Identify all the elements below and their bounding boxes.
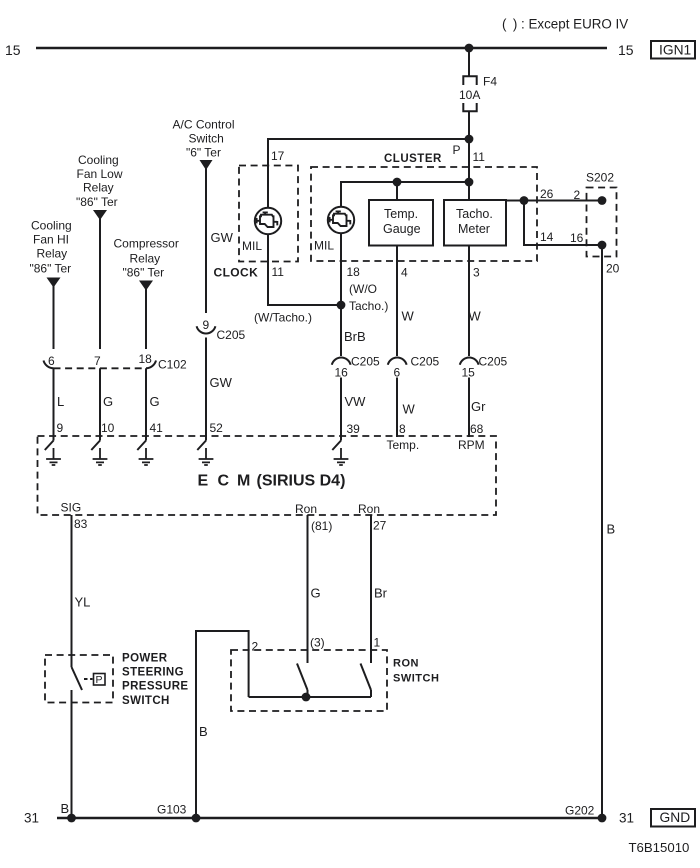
svg-text:"6" Ter: "6" Ter	[186, 146, 221, 160]
svg-text:B: B	[199, 724, 208, 739]
svg-text:G: G	[103, 394, 113, 409]
svg-text:Br: Br	[374, 586, 388, 601]
svg-text:Gr: Gr	[471, 399, 486, 414]
tacho meter	[444, 200, 506, 246]
wire: cluster MIL 18 down	[340, 233, 342, 356]
junction: main feed	[465, 178, 474, 187]
wire: branch 26 to 14	[524, 201, 602, 246]
svg-text:2: 2	[574, 188, 581, 202]
svg-text:GW: GW	[211, 230, 234, 245]
ECM ground pin 10	[91, 436, 107, 465]
junction: P/S switch ground	[67, 814, 76, 823]
connector C102	[44, 358, 188, 372]
junction: s202 pin 16	[598, 241, 607, 250]
svg-text:Cooling: Cooling	[78, 153, 119, 167]
MIL lamp (clock)	[242, 208, 281, 253]
svg-text:(3): (3)	[310, 636, 325, 650]
wire: C205 to ECM pin 52	[205, 338, 207, 441]
svg-text:C102: C102	[158, 358, 187, 372]
wire: Ron 81 to RON switch 3, label G	[307, 515, 309, 663]
wire: compressor to C102 pin 18	[145, 289, 147, 349]
svg-text:Tacho.): Tacho.)	[349, 299, 388, 313]
wire: to ECM 39, label VW	[340, 378, 342, 441]
junction: rail to fuse	[465, 44, 474, 53]
svg-text:S202: S202	[586, 171, 614, 185]
svg-text:52: 52	[210, 421, 224, 435]
svg-text:C205: C205	[411, 355, 440, 369]
svg-text:20: 20	[606, 262, 620, 276]
svg-text:B: B	[61, 801, 70, 816]
svg-text:MIL: MIL	[314, 239, 334, 253]
RON switch	[231, 650, 387, 711]
svg-text:G202: G202	[565, 804, 595, 818]
net: IGN1	[651, 41, 695, 59]
svg-text:VW: VW	[345, 394, 367, 409]
svg-text:Compressor: Compressor	[114, 237, 179, 251]
wire: ground bus to RON switch pin 2	[196, 631, 249, 818]
label: RON SWITCH	[393, 658, 439, 685]
svg-text:15: 15	[618, 42, 634, 58]
svg-text:GW: GW	[210, 375, 233, 390]
label: POWER STEERING PRESSURE SWITCH	[122, 653, 188, 708]
svg-text:Temp.: Temp.	[387, 438, 420, 452]
wire: pin18 to ECM pin 41, label G	[145, 368, 147, 440]
svg-text:16: 16	[570, 231, 584, 245]
svg-text:14: 14	[540, 230, 554, 244]
ECM ground pin 52	[197, 436, 213, 465]
svg-text:G: G	[150, 394, 160, 409]
wire: cluster internal feed	[341, 139, 469, 207]
svg-text:Relay: Relay	[37, 247, 68, 261]
svg-text:31: 31	[619, 811, 634, 826]
svg-text:26: 26	[540, 187, 554, 201]
svg-text:7: 7	[94, 354, 101, 368]
wire: temp gauge down, label W	[396, 246, 398, 357]
wire: SIG 83 to P/S switch, label YL	[71, 515, 73, 667]
wire: pin6 to ECM pin 9, label L	[53, 368, 55, 440]
svg-text:2: 2	[252, 640, 259, 654]
wire: B to G202	[601, 245, 603, 818]
ground G202	[565, 804, 606, 823]
junction: s202 branch	[520, 196, 529, 205]
svg-text:IGN1: IGN1	[659, 43, 691, 58]
svg-text:"86" Ter: "86" Ter	[123, 266, 165, 280]
junction: s202 pin 2	[598, 196, 607, 205]
cooling fan low relay	[76, 153, 123, 220]
ECM ground pin 39	[332, 436, 348, 465]
a/c control switch	[173, 118, 235, 171]
MIL lamp (cluster)	[314, 207, 354, 253]
svg-text:11: 11	[473, 150, 486, 164]
clock box	[239, 166, 298, 262]
wire: branch to clock pin 17	[268, 139, 469, 208]
svg-text:A/C Control: A/C Control	[173, 118, 235, 132]
svg-text:F4: F4	[483, 75, 497, 89]
cluster box	[311, 167, 537, 261]
svg-text:RON: RON	[393, 658, 419, 670]
svg-text:16: 16	[335, 366, 349, 380]
svg-text:CLUSTER: CLUSTER	[384, 153, 442, 165]
cooling fan hi relay	[30, 219, 72, 288]
junction: clock join	[337, 301, 346, 310]
wire: ignition 15 rail	[36, 47, 607, 49]
svg-text:W: W	[469, 309, 482, 324]
wire: Ron 27 to RON switch 1, label Br	[370, 515, 372, 663]
svg-text:Temp.: Temp.	[384, 207, 418, 221]
ECM ground pin 41	[137, 436, 153, 465]
svg-text:L: L	[57, 394, 64, 409]
svg-text:(W/Tacho.): (W/Tacho.)	[254, 311, 312, 325]
svg-text:GND: GND	[660, 810, 691, 825]
svg-text:41: 41	[150, 421, 164, 435]
junction: node P	[465, 135, 474, 144]
svg-text:G: G	[311, 586, 321, 601]
connector C205 pin 6	[388, 355, 440, 380]
connector C205 pin 15	[460, 355, 508, 380]
svg-text:27: 27	[373, 519, 387, 533]
ground G103	[157, 803, 200, 823]
svg-text:3: 3	[473, 266, 480, 280]
svg-text:G103: G103	[157, 803, 187, 817]
svg-text:SWITCH: SWITCH	[122, 695, 170, 707]
svg-text:YL: YL	[75, 595, 91, 610]
svg-text:C205: C205	[479, 355, 508, 369]
svg-text:Cooling: Cooling	[31, 219, 72, 233]
svg-text:6: 6	[394, 366, 401, 380]
wire: fuse to cluster pin 11	[468, 111, 470, 200]
svg-text:RPM: RPM	[458, 438, 485, 452]
svg-text:"86" Ter: "86" Ter	[30, 262, 72, 276]
wire: P/S switch to ground bus, label B	[71, 690, 73, 818]
svg-text:11: 11	[272, 265, 285, 279]
svg-text:9: 9	[57, 421, 64, 435]
wire: to ECM 8, label W	[396, 378, 398, 438]
svg-text:ECM(SIRIUS D4): ECM(SIRIUS D4)	[198, 473, 346, 490]
wire: clock pin 11 down to W/Tacho junction	[268, 234, 341, 305]
svg-text:(81): (81)	[311, 519, 332, 533]
svg-text:W: W	[402, 309, 415, 324]
wire: rail to fuse F4	[468, 48, 470, 76]
svg-text:C205: C205	[217, 328, 246, 342]
connector C205 pin 16	[332, 355, 380, 380]
svg-text:PRESSURE: PRESSURE	[122, 681, 188, 693]
svg-text:18: 18	[139, 352, 153, 366]
svg-text:10: 10	[101, 421, 115, 435]
svg-text:SWITCH: SWITCH	[393, 673, 439, 685]
svg-text:Ron: Ron	[358, 502, 380, 516]
wire: fan low to C102 pin 7	[99, 219, 101, 350]
svg-text:MIL: MIL	[242, 239, 262, 253]
svg-text:STEERING: STEERING	[122, 667, 184, 679]
svg-text:4: 4	[401, 266, 408, 280]
svg-text:P: P	[453, 143, 461, 157]
svg-text:Switch: Switch	[189, 132, 224, 146]
svg-text:POWER: POWER	[122, 653, 168, 665]
svg-text:P: P	[96, 674, 103, 686]
wire: tacho down, label W	[468, 246, 470, 357]
svg-text:T6B15010: T6B15010	[629, 840, 690, 855]
svg-text:17: 17	[271, 149, 285, 163]
svg-text:BrB: BrB	[344, 329, 366, 344]
wire: a/c switch to C205 pin 9	[205, 169, 207, 314]
svg-text:C205: C205	[351, 355, 380, 369]
svg-text:( ) : Except EURO IV: ( ) : Except EURO IV	[502, 17, 628, 32]
svg-text:Gauge: Gauge	[383, 222, 421, 236]
compressor relay	[114, 237, 179, 291]
net: GND	[651, 809, 695, 827]
svg-text:8: 8	[399, 422, 406, 436]
svg-text:15: 15	[5, 42, 21, 58]
connector C205 pin 9	[197, 318, 246, 342]
svg-text:39: 39	[347, 422, 361, 436]
wire: fan hi to C102 pin 6	[53, 286, 55, 349]
svg-text:Fan Low: Fan Low	[77, 167, 123, 181]
junction: temp gauge feed	[393, 178, 402, 187]
svg-text:(W/O: (W/O	[349, 282, 377, 296]
svg-text:Meter: Meter	[458, 222, 490, 236]
svg-text:SIG: SIG	[61, 501, 82, 515]
wire: tacho to S202 pin 2	[506, 200, 602, 202]
splice S202	[586, 171, 617, 257]
svg-text:6: 6	[48, 354, 55, 368]
svg-text:68: 68	[470, 422, 484, 436]
power steering pressure switch	[45, 655, 113, 703]
svg-text:31: 31	[24, 811, 39, 826]
fuse F4 10A	[459, 75, 497, 112]
ECM ground pin 9	[45, 436, 61, 465]
wire: ground bus 31	[57, 817, 602, 819]
svg-text:"86" Ter: "86" Ter	[76, 195, 118, 209]
svg-text:10A: 10A	[459, 88, 480, 102]
svg-text:Fan HI: Fan HI	[33, 233, 69, 247]
svg-text:1: 1	[374, 636, 381, 650]
svg-text:Ron: Ron	[295, 502, 317, 516]
svg-text:15: 15	[462, 366, 476, 380]
svg-text:Tacho.: Tacho.	[456, 207, 493, 221]
svg-text:9: 9	[203, 318, 210, 332]
svg-text:Relay: Relay	[83, 181, 114, 195]
wire: to ECM 68, label Gr	[468, 378, 470, 438]
temp gauge	[369, 200, 433, 246]
wire: pin7 to ECM pin 10, label G	[99, 368, 101, 440]
svg-text:83: 83	[74, 517, 88, 531]
svg-text:Relay: Relay	[130, 252, 161, 266]
svg-text:18: 18	[347, 265, 361, 279]
svg-text:W: W	[403, 402, 416, 417]
svg-text:CLOCK: CLOCK	[214, 266, 259, 280]
ECM box	[38, 436, 497, 515]
svg-text:B: B	[607, 522, 616, 537]
